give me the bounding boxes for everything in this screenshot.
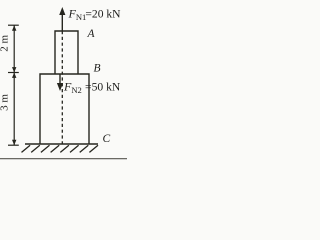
- ground hatching: [22, 145, 99, 152]
- ground line: [25, 143, 98, 145]
- force F_N2 arrow (downward): [59, 75, 61, 85]
- svg-text:FN1=20 kN: FN1=20 kN: [68, 7, 122, 22]
- svg-text:B: B: [94, 63, 101, 75]
- force F_N1 arrow (upward): [61, 13, 63, 32]
- svg-text:A: A: [87, 28, 96, 40]
- dimension line (vertical): [13, 25, 15, 145]
- column segment AB (narrow rectangle): [55, 31, 78, 74]
- svg-text:2 m: 2 m: [0, 34, 11, 51]
- dimension tick top: [8, 24, 19, 26]
- dimension tick middle: [8, 72, 19, 74]
- column segment BC (wide rectangle): [40, 74, 89, 144]
- dim arrowhead up at middle (3m top): [12, 73, 16, 78]
- dim arrowhead up at top: [12, 25, 16, 31]
- dim arrowhead down at bottom: [12, 140, 16, 145]
- svg-text:3 m: 3 m: [0, 94, 11, 111]
- dimension tick bottom: [8, 144, 19, 146]
- bottom page rule: [0, 158, 127, 160]
- dashed centerline: [61, 31, 63, 144]
- svg-text:C: C: [103, 133, 111, 145]
- dim arrowhead down at middle (2m bottom): [12, 67, 16, 72]
